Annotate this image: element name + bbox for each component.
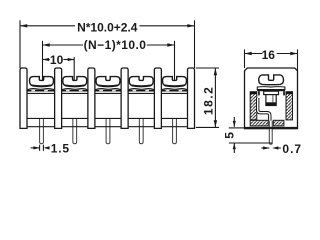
clamp plate 2 (dark bar) bbox=[62, 90, 87, 92]
dimension 16 (body width) bbox=[245, 48, 298, 62]
wire clamp spring 2 (wavy line) bbox=[62, 89, 87, 90]
wire clamp spring 4 (wavy line) bbox=[129, 89, 154, 90]
base top edge bay 5 bbox=[161, 117, 187, 119]
base bottom edge bay 2 bbox=[62, 126, 88, 128]
extension line 16 left bbox=[244, 49, 246, 68]
clamp plate 4 (dark bar) bbox=[129, 90, 154, 92]
extension line left (body left edge, x=20) bbox=[19, 20, 21, 68]
base bottom edge bay 1 bbox=[27, 126, 55, 128]
barrier wall 1 bbox=[20, 68, 27, 128]
base top edge bay 1 bbox=[27, 117, 55, 119]
dimension 5 (pin length) bbox=[223, 117, 237, 153]
svg-text:10: 10 bbox=[50, 53, 64, 67]
extension line (5) at pin tip bbox=[229, 142, 272, 144]
extension line screw 5 center bbox=[174, 41, 176, 80]
extension line 16 right bbox=[297, 49, 299, 70]
screw terminal 2 (front view screw head with slot) bbox=[63, 77, 87, 87]
base top edge bay 4 bbox=[128, 117, 154, 119]
side view base left section (hatched) bbox=[250, 120, 268, 126]
side view screw barrel bbox=[266, 95, 276, 106]
deck edge line bay 4 bbox=[128, 92, 154, 94]
pin 3 (front view solder pin) bbox=[106, 118, 110, 143]
deck edge line bay 2 bbox=[62, 92, 88, 94]
pin 4 (front view solder pin) bbox=[139, 118, 143, 143]
pin 1 (front view solder pin) bbox=[40, 118, 44, 143]
dimension 10 (single pitch) bbox=[43, 53, 75, 67]
svg-text:18.2: 18.2 bbox=[202, 86, 216, 115]
bent contact strip (side view) bbox=[258, 98, 270, 121]
deck edge line bay 3 bbox=[95, 92, 121, 94]
barrier wall 4 bbox=[121, 68, 128, 128]
svg-text:N*10.0+2.4: N*10.0+2.4 bbox=[77, 21, 138, 35]
dimension N*10.0+2.4 (overall width) bbox=[20, 21, 195, 35]
pin 5 (front view solder pin) bbox=[173, 118, 177, 143]
wire clamp spring 1 (wavy line) bbox=[28, 89, 55, 90]
clamp plate 5 (dark bar) bbox=[162, 90, 187, 92]
svg-text:0.7: 0.7 bbox=[282, 142, 302, 156]
side view screw shaft flange bbox=[258, 91, 285, 95]
barrier wall 6 bbox=[188, 68, 195, 128]
side view solder pin bbox=[269, 121, 272, 145]
barrier wall 2 bbox=[55, 68, 62, 128]
extension tick bottom (18.2) bbox=[196, 126, 219, 128]
svg-text:(N−1)*10.0: (N−1)*10.0 bbox=[84, 38, 147, 52]
screw terminal 5 (front view screw head with slot) bbox=[163, 77, 187, 87]
base top edge bay 3 bbox=[95, 117, 121, 119]
base bottom edge bay 4 bbox=[128, 126, 154, 128]
side view base right section (hatched) bbox=[273, 120, 284, 126]
front view: terminal block body bbox=[20, 68, 195, 144]
right wall top cap bbox=[286, 92, 293, 95]
screw barrel dark tip bbox=[266, 102, 276, 105]
svg-text:1.5: 1.5 bbox=[51, 142, 70, 156]
side view: body outline bbox=[245, 68, 298, 129]
barrier wall 5 bbox=[154, 68, 161, 128]
svg-text:5: 5 bbox=[223, 132, 237, 139]
base bottom edge bay 5 bbox=[161, 126, 187, 128]
dimension (N-1)*10.0 (pole pitch span) bbox=[43, 38, 175, 52]
dimension 0.7 (pin thickness) bbox=[261, 142, 302, 156]
side view body bottom thick edge bbox=[244, 127, 298, 129]
screw terminal 1 (front view screw head with slot) bbox=[30, 77, 54, 87]
side view screw head bbox=[259, 75, 284, 85]
screw terminal 3 (front view screw head with slot) bbox=[96, 77, 120, 87]
deck edge line bay 1 bbox=[27, 92, 55, 94]
side view cage right wall (hatched cross-section) bbox=[286, 92, 293, 120]
side view cage left wall (hatched cross-section) bbox=[250, 92, 257, 120]
left wall top cap bbox=[250, 92, 257, 95]
base top edge bay 2 bbox=[62, 117, 88, 119]
wire clamp spring 3 (wavy line) bbox=[95, 89, 120, 90]
extension line right (body right edge, x=194.5) bbox=[194, 20, 196, 68]
clamp plate 1 (dark bar) bbox=[27, 90, 54, 92]
dimension 18.2 (body height) bbox=[202, 68, 218, 127]
pin 2 (front view solder pin) bbox=[73, 118, 77, 143]
screw terminal 4 (front view screw head with slot) bbox=[129, 77, 153, 87]
barrier wall 3 bbox=[88, 68, 95, 128]
extension line screw 1 center bbox=[42, 41, 44, 80]
extension line (5) at body bottom bbox=[229, 127, 244, 129]
side view clamp washer plate bbox=[257, 87, 285, 92]
screw barrel inner lines bbox=[272, 95, 274, 103]
dimension 1.5 (pin width) bbox=[31, 142, 70, 156]
wire clamp spring 5 (wavy line) bbox=[162, 89, 187, 90]
extension lines pin 1 edges bbox=[39, 145, 41, 151]
deck edge line bay 5 bbox=[161, 92, 187, 94]
extension tick top (18.2) bbox=[196, 67, 219, 69]
base bottom edge bay 3 bbox=[95, 126, 121, 128]
extension line screw 2 center bbox=[73, 57, 75, 80]
svg-text:16: 16 bbox=[262, 48, 276, 62]
clamp plate 3 (dark bar) bbox=[95, 90, 120, 92]
